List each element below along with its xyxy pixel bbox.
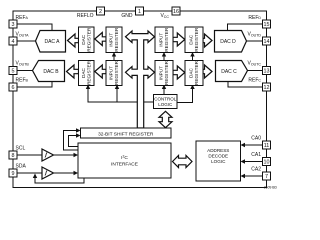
svg-text:I2C: I2C (121, 155, 128, 162)
svg-text:9: 9 (12, 171, 15, 177)
wire VOUTA (pin4 to DAC A tip) (18, 40, 36, 42)
svg-text:DAC: DAC (81, 34, 86, 45)
shift register input wire 1 (from I2C) (64, 131, 80, 151)
DAC C (216, 61, 248, 82)
pin 11 CA0 (251, 136, 270, 150)
DAC register B (79, 61, 95, 86)
pin 2 REFLO (77, 7, 105, 19)
wire REFB (pin6 to DAC B bottom) (18, 82, 53, 88)
svg-text:3: 3 (12, 22, 15, 28)
SDA buffer (42, 167, 54, 179)
inter-row control arrow left input register (113, 53, 115, 61)
input register B (106, 61, 122, 86)
wire VOUTB (pin5 to DAC B tip) (18, 70, 33, 72)
svg-text:REGISTER: REGISTER (164, 60, 169, 85)
svg-text:LOGIC: LOGIC (158, 102, 173, 107)
svg-text:REGISTER: REGISTER (194, 27, 199, 52)
SCL buffered wire (54, 154, 78, 156)
central data bus (T arrow row1 + cross arrow row2 + trunk) (126, 31, 155, 128)
wire REFA (pin3 to DAC A top) (18, 24, 53, 31)
svg-text:14: 14 (264, 39, 270, 45)
svg-text:SCL: SCL (16, 146, 26, 152)
wire CA0 (242, 144, 263, 146)
control logic (154, 95, 178, 109)
svg-text:INPUT: INPUT (109, 33, 114, 47)
pin 3 REFA (9, 15, 29, 28)
pin 9 SDA (9, 164, 26, 178)
wire VOUTC (DAC C tip to pin13) (248, 70, 263, 72)
address decode logic (196, 141, 241, 181)
svg-text:12: 12 (264, 85, 270, 91)
hollow arrow DAC reg D to DAC D (203, 34, 212, 47)
DAC B (33, 61, 65, 82)
double arrow I2C to address decode (173, 156, 193, 168)
svg-text:7: 7 (265, 174, 268, 180)
pin 5 VOUTB (9, 61, 29, 75)
inter-row control arrow right input register (163, 53, 165, 61)
pin 7 CA2 (251, 167, 270, 181)
svg-text:DAC C: DAC C (221, 69, 237, 75)
hollow arrow input reg D to DAC reg D (173, 33, 185, 46)
svg-text:REFLO: REFLO (77, 13, 94, 19)
svg-text:LOGIC: LOGIC (211, 159, 226, 164)
I2C interface (78, 143, 171, 178)
svg-text:16: 16 (173, 9, 179, 15)
control logic left wire to row2 registers (88, 86, 154, 103)
DAC register D (185, 27, 203, 53)
wire CA1 (242, 161, 263, 163)
input register C (155, 61, 173, 86)
hollow arrow input reg C to DAC reg C (173, 66, 185, 79)
pin 14 VOUTD (247, 32, 270, 46)
wire REFC (pin12 to DAC C bottom) (228, 82, 262, 88)
svg-text:REGISTER: REGISTER (86, 60, 91, 85)
pin 16 VCC (160, 7, 180, 19)
svg-text:INPUT: INPUT (159, 33, 164, 47)
svg-text:2: 2 (99, 9, 102, 15)
hollow arrow input reg B to DAC reg B (95, 65, 106, 78)
svg-text:DAC D: DAC D (220, 39, 236, 45)
svg-text:CA2: CA2 (251, 167, 261, 173)
svg-text:DECODE: DECODE (208, 153, 228, 158)
wire REFD (pin15 to DAC D top) (228, 24, 263, 31)
pin 12 REFC (248, 78, 270, 92)
SDA feedback wire from I2C (35, 175, 84, 184)
svg-text:SDA: SDA (16, 164, 27, 170)
32-bit shift register (81, 128, 172, 138)
svg-text:CONTROL: CONTROL (154, 96, 176, 101)
control stem into left input register B (116, 86, 118, 103)
svg-text:REGISTER: REGISTER (194, 60, 199, 85)
pin 8 SCL (9, 146, 25, 160)
DAC D (215, 31, 247, 53)
inter-row control arrow right DAC register (192, 53, 194, 61)
pin 15 REFD (248, 15, 270, 28)
svg-text:CA0: CA0 (251, 136, 261, 142)
svg-text:1: 1 (138, 9, 141, 15)
svg-text:INTERFACE: INTERFACE (111, 162, 138, 168)
wire SDA (18, 172, 43, 174)
svg-text:CA1: CA1 (251, 152, 261, 158)
hollow arrow DAC reg A to DAC A (68, 34, 79, 47)
wire VOUTD (DAC D tip to pin14) (247, 40, 263, 42)
svg-text:8: 8 (12, 153, 15, 159)
svg-text:5: 5 (12, 69, 15, 75)
svg-text:DAC: DAC (81, 67, 86, 78)
pin 1 GND (121, 7, 143, 19)
SDA buffered wire (54, 172, 78, 174)
double arrow control logic to shift register (159, 111, 172, 127)
svg-text:32-BIT SHIFT REGISTER: 32-BIT SHIFT REGISTER (98, 131, 154, 137)
svg-text:DAC B: DAC B (43, 69, 59, 75)
svg-text:11: 11 (264, 143, 270, 149)
svg-text:10: 10 (264, 160, 270, 166)
svg-text:GND: GND (121, 13, 133, 19)
pin 6 REFB (9, 78, 29, 92)
hollow arrow input reg A to DAC reg A (95, 33, 106, 46)
hollow arrow DAC reg C to DAC C (203, 65, 212, 78)
wire SCL (18, 154, 43, 156)
shift register input wire 2 (from I2C) (68, 136, 79, 147)
svg-text:REGISTER: REGISTER (114, 60, 119, 85)
pin 13 VOUTC (247, 61, 270, 75)
svg-text:REGISTER: REGISTER (86, 27, 91, 52)
svg-text:13: 13 (264, 69, 270, 75)
svg-text:4: 4 (12, 39, 15, 45)
svg-text:REGISTER: REGISTER (114, 27, 119, 52)
svg-text:DAC A: DAC A (44, 39, 60, 45)
chip border (13, 11, 267, 188)
input register D (155, 27, 173, 53)
svg-text:DAC: DAC (189, 34, 194, 45)
svg-text:DAC: DAC (189, 67, 194, 78)
svg-text:INPUT: INPUT (159, 66, 164, 80)
input register A (106, 27, 122, 53)
svg-text:REGISTER: REGISTER (164, 27, 169, 52)
DAC A (36, 31, 66, 53)
svg-text:15: 15 (264, 22, 270, 28)
hollow arrow DAC reg B to DAC B (67, 65, 79, 78)
svg-text:6: 6 (12, 85, 15, 91)
SCL buffer (42, 149, 54, 161)
DAC register A (79, 27, 95, 53)
svg-text:2609 BD: 2609 BD (264, 186, 278, 190)
pin 4 VOUTA (9, 32, 29, 46)
DAC register C (185, 61, 203, 86)
pin 10 CA1 (251, 152, 270, 166)
wire CA2 (242, 175, 263, 177)
control logic right wire to right DAC register C (177, 86, 193, 103)
control stem into right input register C (163, 86, 165, 95)
svg-text:INPUT: INPUT (109, 66, 114, 80)
svg-text:ADDRESS: ADDRESS (207, 148, 229, 153)
